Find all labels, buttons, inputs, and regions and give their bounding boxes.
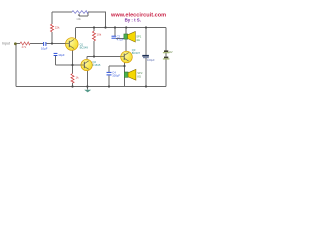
svg-text:Input: Input — [2, 42, 10, 46]
svg-text:47k: 47k — [22, 45, 27, 49]
svg-text:SP1: SP1 — [136, 34, 142, 38]
svg-text:22k: 22k — [55, 25, 60, 29]
svg-text:10k: 10k — [76, 17, 81, 21]
svg-text:10µF: 10µF — [58, 53, 65, 57]
svg-text:By : t S.: By : t S. — [125, 18, 141, 23]
svg-text:10µF: 10µF — [41, 46, 48, 50]
svg-text:10k: 10k — [97, 32, 102, 36]
svg-text:100µF: 100µF — [112, 74, 120, 78]
svg-text:100µF: 100µF — [147, 58, 155, 62]
svg-text:8Ω: 8Ω — [137, 75, 141, 79]
svg-text:C1815: C1815 — [92, 63, 100, 67]
svg-text:9V: 9V — [169, 50, 173, 54]
svg-text:4Ω: 4Ω — [136, 38, 140, 42]
svg-text:BC337: BC337 — [132, 51, 141, 55]
svg-text:4.7µF: 4.7µF — [117, 37, 124, 41]
svg-text:BC549: BC549 — [80, 46, 89, 50]
